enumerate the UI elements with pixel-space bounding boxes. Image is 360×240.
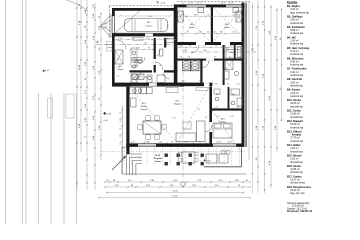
svg-text:Nappali: Nappali xyxy=(174,104,182,106)
svg-text:Összesen: 139,05 m2: Összesen: 139,05 m2 xyxy=(287,210,313,213)
svg-text:B6.: B6. xyxy=(190,66,193,68)
svg-text:1,50: 1,50 xyxy=(212,32,216,34)
svg-text:B8.: B8. xyxy=(204,50,207,52)
svg-text:+1,02: +1,02 xyxy=(44,70,50,72)
svg-text:kerámia lap: kerámia lap xyxy=(290,126,304,129)
svg-text:laminált lap: laminált lap xyxy=(290,105,303,108)
svg-text:30: 30 xyxy=(79,4,81,6)
svg-text:laminált lap: laminált lap xyxy=(290,171,303,174)
svg-text:laminált lap: laminált lap xyxy=(290,116,303,119)
svg-text:+0,00: +0,00 xyxy=(106,114,112,116)
svg-text:1,50: 1,50 xyxy=(214,84,217,86)
svg-text:laminált lap: laminált lap xyxy=(290,84,303,87)
svg-text:B17.: B17. xyxy=(147,22,152,24)
svg-text:2,75: 2,75 xyxy=(168,24,170,28)
svg-text:1,10: 1,10 xyxy=(120,119,122,123)
svg-text:90: 90 xyxy=(214,57,216,59)
svg-text:kerámia lap: kerámia lap xyxy=(290,43,304,46)
svg-text:kerámia lap: kerámia lap xyxy=(290,32,304,35)
svg-text:kerámia lap: kerámia lap xyxy=(290,140,304,143)
svg-text:1,50: 1,50 xyxy=(198,32,202,34)
svg-text:pm 90: pm 90 xyxy=(189,2,194,4)
svg-text:Bejáró: Bejáró xyxy=(118,69,125,71)
svg-text:5,40: 5,40 xyxy=(155,34,158,36)
svg-text:30: 30 xyxy=(198,109,200,111)
svg-text:+0,00: +0,00 xyxy=(103,120,109,122)
svg-text:1,40: 1,40 xyxy=(104,27,108,29)
svg-text:simított beton: simított beton xyxy=(290,182,306,185)
svg-text:terasz: terasz xyxy=(155,160,161,163)
svg-text:B16.: B16. xyxy=(221,118,226,120)
svg-text:7,10: 7,10 xyxy=(172,118,176,120)
svg-text:pm 90: pm 90 xyxy=(197,2,202,4)
svg-text:3,05: 3,05 xyxy=(194,14,198,16)
svg-text:+0,25: +0,25 xyxy=(206,160,211,162)
svg-text:75: 75 xyxy=(239,57,241,59)
svg-text:pm 90: pm 90 xyxy=(229,2,234,4)
svg-text:11,40: 11,40 xyxy=(172,191,178,193)
svg-text:90: 90 xyxy=(220,32,222,34)
svg-text:kerámia lap: kerámia lap xyxy=(290,64,304,67)
svg-text:1,12: 1,12 xyxy=(216,116,220,118)
svg-text:B10.: B10. xyxy=(225,24,230,26)
svg-text:90: 90 xyxy=(182,14,184,16)
svg-text:1,50: 1,50 xyxy=(232,32,236,34)
svg-text:kerámia lap: kerámia lap xyxy=(290,22,304,25)
svg-text:5,40: 5,40 xyxy=(148,16,152,18)
svg-text:90: 90 xyxy=(229,57,231,59)
svg-text:90: 90 xyxy=(227,106,229,108)
svg-text:90: 90 xyxy=(117,59,119,61)
svg-text:13,50: 13,50 xyxy=(172,196,178,198)
svg-text:2,10: 2,10 xyxy=(229,46,232,48)
svg-text:1,45: 1,45 xyxy=(187,57,190,59)
svg-text:Garázs: Garázs xyxy=(146,24,153,27)
svg-text:Pergolás: Pergolás xyxy=(154,158,163,160)
svg-text:1,12: 1,12 xyxy=(214,106,217,108)
svg-text:75: 75 xyxy=(134,34,136,36)
svg-text:3,30: 3,30 xyxy=(181,81,184,83)
svg-text:1,10: 1,10 xyxy=(120,135,122,139)
svg-text:90: 90 xyxy=(187,32,189,34)
svg-text:1,30: 1,30 xyxy=(236,106,239,108)
svg-text:Szoba: Szoba xyxy=(189,27,196,29)
svg-text:1,10: 1,10 xyxy=(116,67,119,69)
svg-text:1,80: 1,80 xyxy=(179,46,182,48)
svg-text:30: 30 xyxy=(99,16,101,18)
svg-text:laminált lap: laminált lap xyxy=(290,161,303,164)
svg-text:pm 90: pm 90 xyxy=(228,141,233,143)
svg-text:pm 90: pm 90 xyxy=(221,2,226,4)
svg-text:90: 90 xyxy=(189,46,191,48)
svg-text:kerámia lap: kerámia lap xyxy=(290,74,304,77)
svg-text:90: 90 xyxy=(199,81,201,83)
svg-text:90: 90 xyxy=(148,48,150,50)
svg-text:B.18.: B.18. xyxy=(156,155,161,157)
svg-text:90: 90 xyxy=(227,84,229,86)
svg-text:1,40: 1,40 xyxy=(236,84,239,86)
svg-text:B9.: B9. xyxy=(227,48,230,50)
svg-text:75: 75 xyxy=(117,76,119,78)
svg-text:+0,00: +0,00 xyxy=(160,3,166,5)
svg-text:B11.: B11. xyxy=(190,24,195,26)
svg-text:1,35: 1,35 xyxy=(120,142,122,146)
svg-text:2,40: 2,40 xyxy=(232,14,236,16)
svg-text:1,50: 1,50 xyxy=(230,116,234,118)
svg-text:1,00: 1,00 xyxy=(93,4,95,8)
svg-text:90: 90 xyxy=(205,117,207,119)
svg-text:15,00: 15,00 xyxy=(79,64,81,70)
svg-text:10: 10 xyxy=(208,14,210,16)
svg-text:B2.: B2. xyxy=(145,43,148,45)
svg-text:Szoba: Szoba xyxy=(224,27,231,29)
svg-text:1,50: 1,50 xyxy=(202,46,205,48)
svg-text:laminált lap: laminált lap xyxy=(290,150,303,153)
svg-text:B3.: B3. xyxy=(185,50,188,52)
svg-text:75: 75 xyxy=(180,57,182,59)
svg-text:75: 75 xyxy=(120,112,122,114)
svg-text:Konyha: Konyha xyxy=(140,109,148,111)
svg-text:kerámia lap: kerámia lap xyxy=(290,95,304,98)
svg-text:pm 90: pm 90 xyxy=(217,141,222,143)
svg-text:10: 10 xyxy=(207,32,209,34)
svg-text:fagy. terr. lap: fagy. terr. lap xyxy=(290,192,305,195)
svg-text:Étkező: Étkező xyxy=(141,105,148,108)
svg-text:B12.: B12. xyxy=(175,101,180,103)
svg-text:1,50: 1,50 xyxy=(104,24,108,26)
svg-text:75: 75 xyxy=(120,128,122,130)
svg-text:90: 90 xyxy=(215,46,217,48)
svg-text:B15.: B15. xyxy=(216,94,220,96)
svg-text:fagy. kerámia lap: fagy. kerámia lap xyxy=(290,11,309,14)
svg-text:B5.: B5. xyxy=(145,77,148,79)
svg-text:kerámia lap: kerámia lap xyxy=(290,53,304,56)
